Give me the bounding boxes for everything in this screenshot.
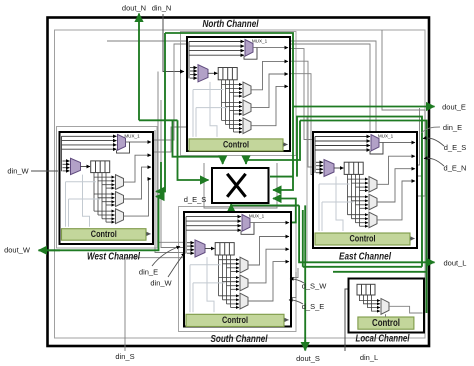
svg-text:dout_E: dout_E [442,103,466,112]
svg-text:Control: Control [91,229,117,240]
svg-text:dout_L: dout_L [444,259,467,268]
svg-text:East Channel: East Channel [339,252,391,263]
svg-text:d_S_E: d_S_E [302,302,325,311]
svg-text:d_E_N: d_E_N [444,164,467,173]
svg-text:din_E: din_E [443,123,462,132]
svg-text:West Channel: West Channel [87,252,140,263]
svg-text:din_E: din_E [139,268,158,277]
svg-text:d_E_S: d_E_S [444,143,467,152]
svg-text:dout_N: dout_N [122,4,146,13]
svg-text:Control: Control [372,318,400,329]
svg-text:MUX_1: MUX_1 [378,134,394,139]
svg-text:din_L: din_L [360,353,378,362]
svg-text:MUX_1: MUX_1 [252,39,268,44]
svg-text:din_N: din_N [152,4,172,13]
svg-text:South Channel: South Channel [211,334,268,345]
svg-text:MUX_1: MUX_1 [124,133,140,138]
svg-text:Control: Control [223,140,249,151]
svg-text:MUX_1: MUX_1 [249,214,265,219]
svg-text:d_E_S: d_E_S [184,195,207,204]
svg-text:North Channel: North Channel [203,19,259,30]
svg-text:din_W: din_W [7,167,29,176]
svg-text:Control: Control [350,234,376,245]
svg-text:din_W: din_W [150,279,172,288]
svg-text:Local Channel: Local Channel [356,334,410,345]
svg-text:dout_S: dout_S [296,354,320,363]
svg-text:dout_W: dout_W [4,246,31,255]
svg-text:d_S_W: d_S_W [302,282,328,291]
svg-text:Control: Control [222,315,248,326]
svg-text:din_S: din_S [115,352,134,361]
